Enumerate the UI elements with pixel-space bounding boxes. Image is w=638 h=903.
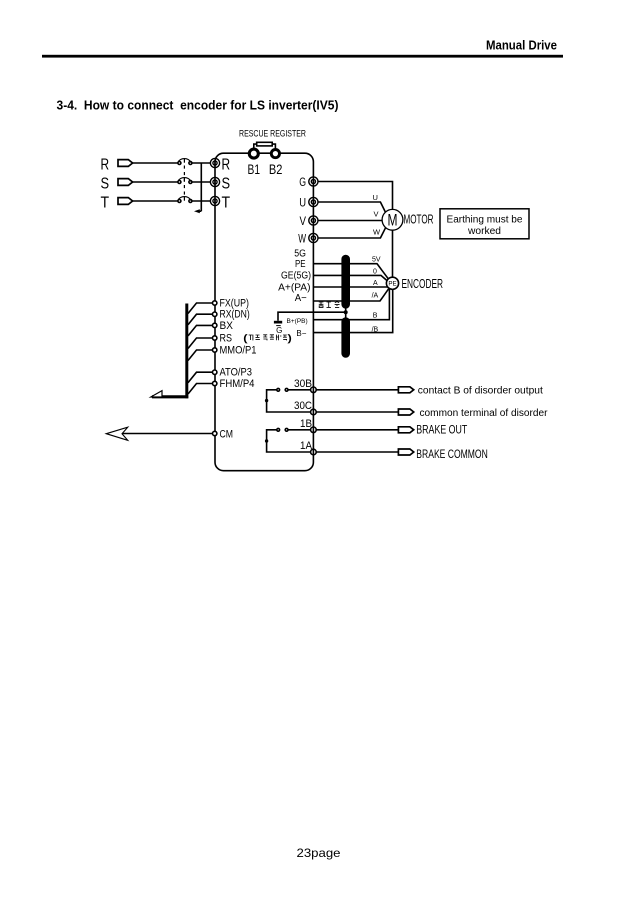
svg-text:30B: 30B (294, 378, 312, 390)
svg-text:G: G (276, 326, 282, 335)
svg-text:3-4. How to connect encoder: 3-4. How to connect encoder for LS inver… (57, 97, 339, 112)
svg-text:G: G (299, 175, 306, 189)
svg-text:S: S (101, 175, 110, 192)
svg-text:CM: CM (220, 428, 234, 440)
svg-text:Manual Drive: Manual Drive (486, 38, 557, 53)
svg-text:W: W (373, 227, 381, 236)
svg-text:0: 0 (373, 268, 377, 275)
svg-text:/B: /B (372, 327, 379, 334)
svg-text:1A: 1A (300, 440, 313, 452)
svg-text:V: V (300, 214, 307, 228)
svg-text:BRAKE OUT: BRAKE OUT (416, 424, 467, 436)
svg-text:B−: B− (296, 329, 306, 338)
svg-text:5G: 5G (294, 248, 306, 259)
svg-text:): ) (288, 333, 291, 343)
svg-text:A+(PA): A+(PA) (278, 282, 310, 293)
svg-text:S: S (222, 175, 231, 192)
svg-text:contact B of disorder output: contact B of disorder output (418, 386, 543, 397)
svg-text:B: B (373, 312, 378, 319)
svg-text:1B: 1B (300, 418, 312, 430)
svg-text:/A: /A (372, 293, 379, 300)
svg-text:PE: PE (388, 281, 396, 288)
svg-text:B1: B1 (248, 161, 261, 177)
svg-text:GE(5G): GE(5G) (281, 271, 311, 282)
svg-text:5V: 5V (372, 257, 381, 264)
svg-text:ATO/P3: ATO/P3 (220, 367, 253, 379)
svg-text:23page: 23page (297, 846, 341, 860)
svg-text:(: ( (244, 333, 247, 343)
svg-text:V: V (374, 209, 379, 218)
svg-text:B+(PB): B+(PB) (287, 318, 308, 325)
svg-text:RS: RS (220, 333, 233, 345)
svg-text:MOTOR: MOTOR (404, 213, 434, 227)
svg-text:BX: BX (220, 320, 234, 332)
svg-text:30C: 30C (294, 400, 312, 412)
svg-text:RX(DN): RX(DN) (220, 309, 250, 321)
svg-text:A−: A− (295, 293, 307, 304)
svg-text:R: R (101, 156, 110, 173)
svg-text:W: W (298, 231, 306, 245)
svg-text:BRAKE COMMON: BRAKE COMMON (416, 449, 488, 461)
svg-text:PE: PE (295, 259, 306, 270)
svg-text:FHM/P4: FHM/P4 (220, 378, 255, 390)
svg-text:B2: B2 (269, 161, 283, 177)
svg-text:worked: worked (467, 226, 501, 237)
svg-text:T: T (101, 194, 110, 211)
svg-text:U: U (299, 195, 306, 209)
svg-text:RESCUE REGISTER: RESCUE REGISTER (239, 129, 306, 139)
svg-text:ENCODER: ENCODER (402, 277, 444, 291)
svg-text:M: M (388, 211, 398, 230)
svg-text:Earthing must be: Earthing must be (447, 215, 523, 226)
svg-text:common terminal of disorder: common terminal of disorder (420, 408, 549, 419)
svg-text:R: R (222, 156, 231, 173)
svg-text:MMO/P1: MMO/P1 (220, 345, 257, 357)
svg-text:U: U (373, 193, 378, 202)
svg-text:FX(UP): FX(UP) (220, 298, 249, 310)
svg-text:T: T (222, 194, 231, 211)
svg-text:A: A (373, 280, 378, 287)
